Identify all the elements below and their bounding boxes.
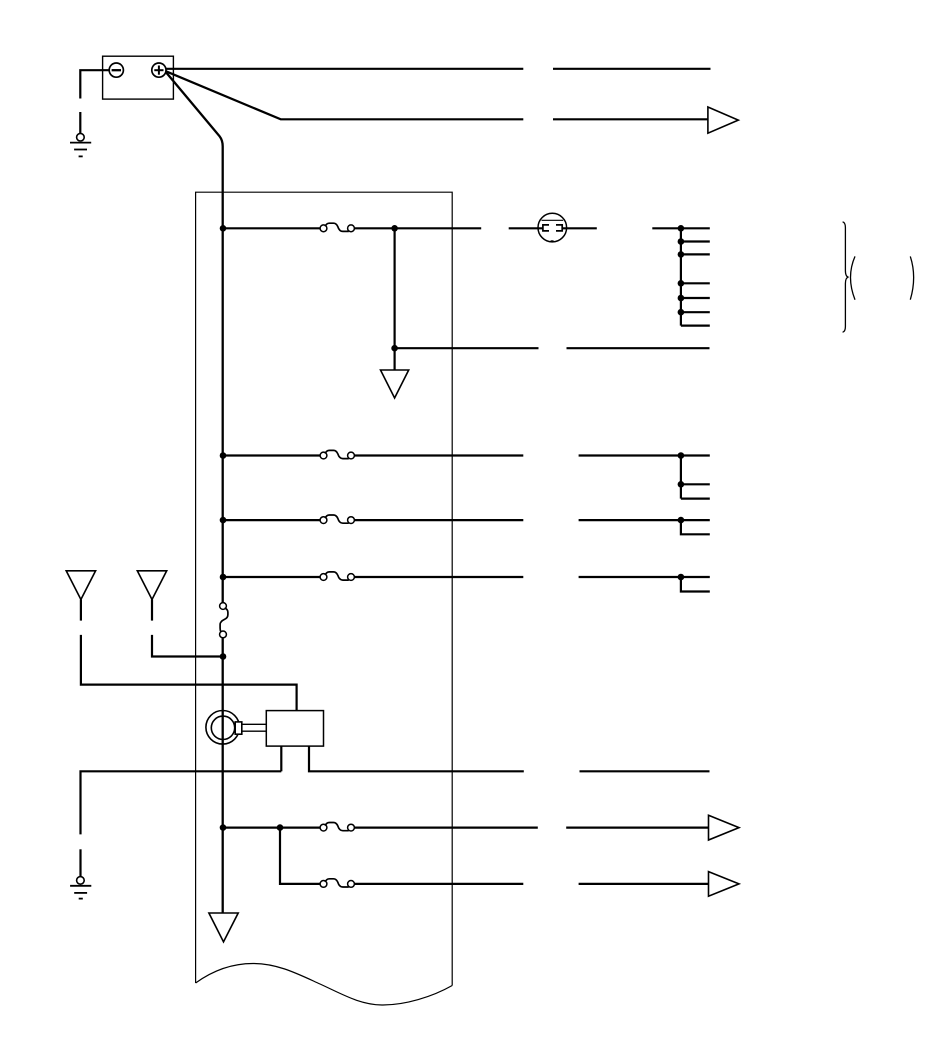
wire stub r1b bbox=[681, 240, 710, 242]
wire ground row left bbox=[81, 771, 282, 834]
node cluster r1c bbox=[678, 251, 685, 258]
antenna arrow left bbox=[66, 571, 95, 600]
wire row2 mid bbox=[354, 454, 523, 456]
wire row3 branch bbox=[681, 520, 710, 534]
fuse F1 bbox=[320, 223, 354, 232]
wire row1 to lamp bbox=[509, 227, 543, 229]
junction block torn-edge wave bbox=[196, 964, 453, 1006]
antenna arrow right bbox=[137, 571, 166, 600]
fuse F7 bbox=[320, 879, 354, 888]
wire stub row2 a bbox=[681, 483, 710, 485]
wire antenna right stem bbox=[151, 600, 153, 621]
wire row2 branch vertical bbox=[680, 456, 682, 499]
wire right cluster vertical bbox=[680, 228, 682, 325]
node row4 r bbox=[678, 574, 685, 581]
connector arrow down D2 bbox=[209, 913, 238, 942]
wire row1 left bbox=[223, 227, 320, 229]
wire row3 mid bbox=[354, 519, 523, 521]
wire rowB mid bbox=[354, 883, 523, 885]
wire row4 left bbox=[223, 576, 320, 578]
fuse F6 bbox=[320, 823, 354, 831]
wire row4 mid bbox=[354, 576, 523, 578]
wire row4 branch bbox=[681, 577, 710, 592]
wire row1 right bbox=[652, 227, 710, 229]
wire row3 right bbox=[579, 519, 710, 521]
wire drop branch right bbox=[567, 347, 710, 349]
ground G2 bbox=[70, 877, 91, 899]
wire row2 left bbox=[223, 454, 320, 456]
harness brace bbox=[843, 222, 849, 332]
wire main bus lower section bbox=[222, 638, 224, 913]
connector arrow A3 bbox=[709, 872, 740, 897]
battery B1 bbox=[103, 56, 174, 99]
wire rowB right bbox=[579, 883, 709, 885]
wire battery positive feed top bbox=[166, 68, 524, 70]
wire row1 drop branch bbox=[394, 228, 396, 348]
wire rowA right bbox=[566, 826, 708, 828]
wire antenna left lower bbox=[81, 635, 297, 711]
node drop branch bbox=[391, 345, 398, 352]
relay box K1 bbox=[266, 711, 323, 747]
wire battery negative to ground bbox=[80, 70, 109, 98]
node cluster r1b bbox=[678, 238, 685, 245]
wire relay right leg bbox=[309, 746, 524, 771]
wire stub row2 b bbox=[681, 498, 710, 500]
connector paren right bbox=[910, 256, 913, 299]
node bus rowA bbox=[220, 824, 227, 831]
fuse F3 bbox=[320, 515, 354, 523]
wire rowA left bbox=[223, 826, 320, 828]
wire ground lead 2 bbox=[79, 849, 81, 876]
node bus row4 bbox=[220, 574, 227, 581]
node row2 r2 bbox=[678, 481, 685, 488]
connector arrow down D1 bbox=[381, 370, 409, 398]
wire row1 after lamp bbox=[562, 227, 597, 229]
node row3 r bbox=[678, 517, 685, 524]
wire stub r1e bbox=[681, 297, 710, 299]
connector arrow A1 bbox=[708, 107, 738, 133]
node row1 branch bbox=[391, 225, 398, 232]
wire rowA to rowB drop bbox=[280, 828, 320, 884]
node cluster r1e bbox=[678, 295, 685, 302]
connector arrow A2 bbox=[709, 815, 740, 840]
node bus row1 bbox=[220, 225, 227, 232]
wire stub r1d bbox=[681, 282, 710, 284]
wire stub r1c bbox=[681, 253, 710, 255]
wire battery positive diagonal to second feed bbox=[166, 71, 523, 119]
connector paren left bbox=[851, 256, 856, 299]
node bus row3 bbox=[220, 517, 227, 524]
wire row3 left bbox=[223, 519, 320, 521]
node cluster r1f bbox=[678, 309, 685, 316]
node row2 r bbox=[678, 452, 685, 459]
wire battery positive to main bus bbox=[166, 73, 223, 603]
wire ground lead lower segment bbox=[79, 112, 81, 133]
wire row1 mid bbox=[354, 227, 481, 229]
wire second feed right segment bbox=[553, 118, 708, 120]
fuse F4 bbox=[320, 572, 354, 580]
node cluster r1d bbox=[678, 280, 685, 287]
motor M1 bbox=[206, 711, 266, 745]
fuse F5 vertical on bus bbox=[220, 603, 228, 638]
node bus row2 bbox=[220, 452, 227, 459]
wire row2 right bbox=[579, 454, 710, 456]
fuse F2 bbox=[320, 450, 354, 459]
wire ground row right segment bbox=[580, 770, 710, 772]
wire row4 right bbox=[579, 576, 710, 578]
wire antenna right lower bbox=[152, 635, 223, 657]
wire drop branch horizontal bbox=[395, 347, 539, 349]
wire rowA mid bbox=[354, 826, 537, 828]
node rowA branch bbox=[277, 824, 284, 831]
node cluster r1a bbox=[678, 225, 685, 232]
wire stub r1f bbox=[681, 311, 710, 313]
junction block outline bbox=[196, 192, 453, 985]
wire feed top right segment bbox=[553, 68, 711, 70]
wire stub r1g bbox=[681, 325, 710, 327]
node bus antenna join bbox=[220, 653, 227, 660]
wire antenna left stem bbox=[80, 600, 82, 621]
ground G1 bbox=[70, 133, 91, 156]
lamp symbol L1 bbox=[538, 213, 567, 242]
wire relay left leg bbox=[280, 746, 282, 771]
wire to down arrow bbox=[394, 348, 396, 370]
